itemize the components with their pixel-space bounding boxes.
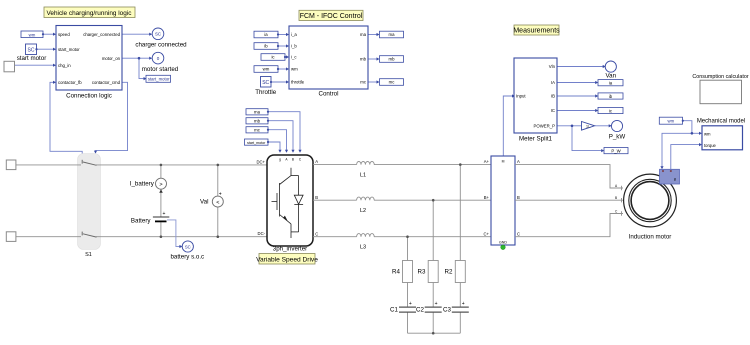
svg-text:C1: C1: [390, 307, 398, 314]
svg-text:S1: S1: [85, 252, 92, 258]
svg-text:Battery: Battery: [131, 217, 152, 224]
svg-text:A: A: [517, 159, 520, 164]
svg-text:wm: wm: [291, 67, 298, 72]
svg-text:SC: SC: [185, 244, 191, 249]
svg-text:P_kW: P_kW: [609, 134, 626, 141]
svg-text:wm: wm: [263, 67, 270, 72]
svg-text:>: >: [159, 182, 162, 188]
svg-text:Variable Speed Drive: Variable Speed Drive: [256, 256, 318, 263]
svg-text:battery s.o.c: battery s.o.c: [170, 254, 204, 261]
svg-text:throttle: throttle: [291, 80, 305, 85]
svg-text:mc: mc: [360, 80, 367, 85]
svg-text:+: +: [409, 301, 412, 307]
svg-text:L2: L2: [360, 208, 366, 214]
svg-text:B+: B+: [484, 195, 490, 200]
svg-text:mb: mb: [389, 57, 396, 62]
svg-text:IC: IC: [551, 108, 555, 113]
svg-text:charger_connected: charger_connected: [83, 32, 120, 37]
svg-text:C3: C3: [443, 307, 451, 314]
svg-text:torque: torque: [704, 143, 717, 148]
svg-text:Val: Val: [200, 199, 208, 206]
svg-text:ma: ma: [360, 32, 367, 37]
svg-text:Consumption calculator: Consumption calculator: [692, 74, 749, 80]
svg-text:<: <: [216, 200, 219, 206]
svg-text:B: B: [615, 196, 617, 200]
svg-text:motor started: motor started: [142, 66, 179, 73]
svg-text:IA: IA: [551, 80, 555, 85]
svg-text:3ph_inverter: 3ph_inverter: [273, 245, 307, 252]
svg-text:Input: Input: [516, 94, 526, 99]
svg-text:start_motor: start_motor: [247, 141, 266, 145]
svg-text:B: B: [292, 158, 294, 162]
svg-text:SC: SC: [28, 48, 35, 54]
svg-text:Vehicle charging/running logic: Vehicle charging/running logic: [47, 10, 133, 17]
svg-text:IB: IB: [551, 94, 555, 99]
svg-text:C+: C+: [484, 231, 490, 236]
svg-text:mb: mb: [360, 57, 367, 62]
svg-text:charger connected: charger connected: [135, 42, 187, 49]
svg-text:Vln: Vln: [549, 64, 556, 69]
svg-text:ma: ma: [389, 32, 396, 37]
svg-text:+: +: [163, 211, 166, 217]
svg-text:wm: wm: [704, 132, 711, 137]
svg-text:ma: ma: [254, 110, 261, 115]
svg-text:A: A: [315, 159, 318, 164]
svg-text:R3: R3: [418, 269, 426, 276]
svg-text:Measurements: Measurements: [513, 28, 560, 35]
svg-text:+: +: [435, 301, 438, 307]
svg-text:Connection logic: Connection logic: [66, 93, 112, 100]
svg-text:ia: ia: [609, 81, 613, 86]
svg-text:wm: wm: [29, 32, 36, 37]
svg-text:R4: R4: [392, 269, 400, 276]
svg-text:start motor: start motor: [17, 55, 47, 62]
svg-text:wm: wm: [668, 119, 675, 124]
svg-text:P_W: P_W: [611, 148, 621, 153]
svg-text:ia: ia: [264, 32, 268, 37]
svg-text:I_battery: I_battery: [130, 180, 155, 187]
svg-text:DC-: DC-: [258, 231, 266, 236]
svg-text:g: g: [279, 158, 281, 162]
svg-text:mc: mc: [254, 128, 261, 133]
svg-text:L3: L3: [360, 245, 366, 251]
svg-text:+: +: [462, 301, 465, 307]
svg-text:DC+: DC+: [257, 159, 266, 164]
svg-text:i_c: i_c: [291, 55, 297, 60]
svg-text:m: m: [673, 178, 677, 181]
svg-text:SC: SC: [262, 80, 269, 86]
svg-text:chg_in: chg_in: [58, 63, 71, 68]
svg-text:POWER_P: POWER_P: [534, 123, 556, 128]
svg-text:start_motor: start_motor: [58, 47, 80, 52]
svg-text:start_motor: start_motor: [148, 77, 170, 82]
svg-text:FCM - IFOC Control: FCM - IFOC Control: [300, 13, 363, 20]
svg-text:R2: R2: [445, 269, 453, 276]
svg-text:B: B: [315, 195, 318, 200]
svg-text:B: B: [517, 195, 520, 200]
svg-text:i_b: i_b: [291, 44, 297, 49]
svg-text:Meter Split1: Meter Split1: [519, 136, 553, 143]
svg-text:SC: SC: [155, 32, 161, 37]
svg-text:i_a: i_a: [291, 32, 297, 37]
svg-text:ib: ib: [264, 44, 268, 49]
svg-text:L1: L1: [360, 173, 366, 179]
svg-text:C2: C2: [416, 307, 424, 314]
svg-text:1/..: 1/..: [586, 124, 591, 128]
svg-text:0: 0: [157, 56, 160, 61]
svg-text:Throttle: Throttle: [255, 89, 277, 96]
svg-text:Control: Control: [319, 91, 339, 98]
svg-text:Induction motor: Induction motor: [629, 234, 672, 241]
svg-text:C: C: [315, 231, 318, 236]
svg-text:A+: A+: [484, 159, 490, 164]
svg-text:contactor_fb: contactor_fb: [58, 80, 82, 85]
svg-text:speed: speed: [58, 32, 70, 37]
svg-text:contactor_cmd: contactor_cmd: [92, 80, 121, 85]
svg-text:Van: Van: [606, 72, 617, 79]
svg-text:Mechanical model: Mechanical model: [697, 119, 745, 125]
svg-text:GND: GND: [499, 241, 507, 245]
svg-text:motor_on: motor_on: [102, 56, 121, 61]
svg-text:mc: mc: [389, 80, 396, 85]
svg-text:ib: ib: [609, 94, 613, 99]
svg-text:mb: mb: [254, 119, 261, 124]
svg-text:C: C: [517, 231, 520, 236]
svg-text:M: M: [502, 160, 505, 164]
svg-text:+: +: [219, 192, 222, 198]
